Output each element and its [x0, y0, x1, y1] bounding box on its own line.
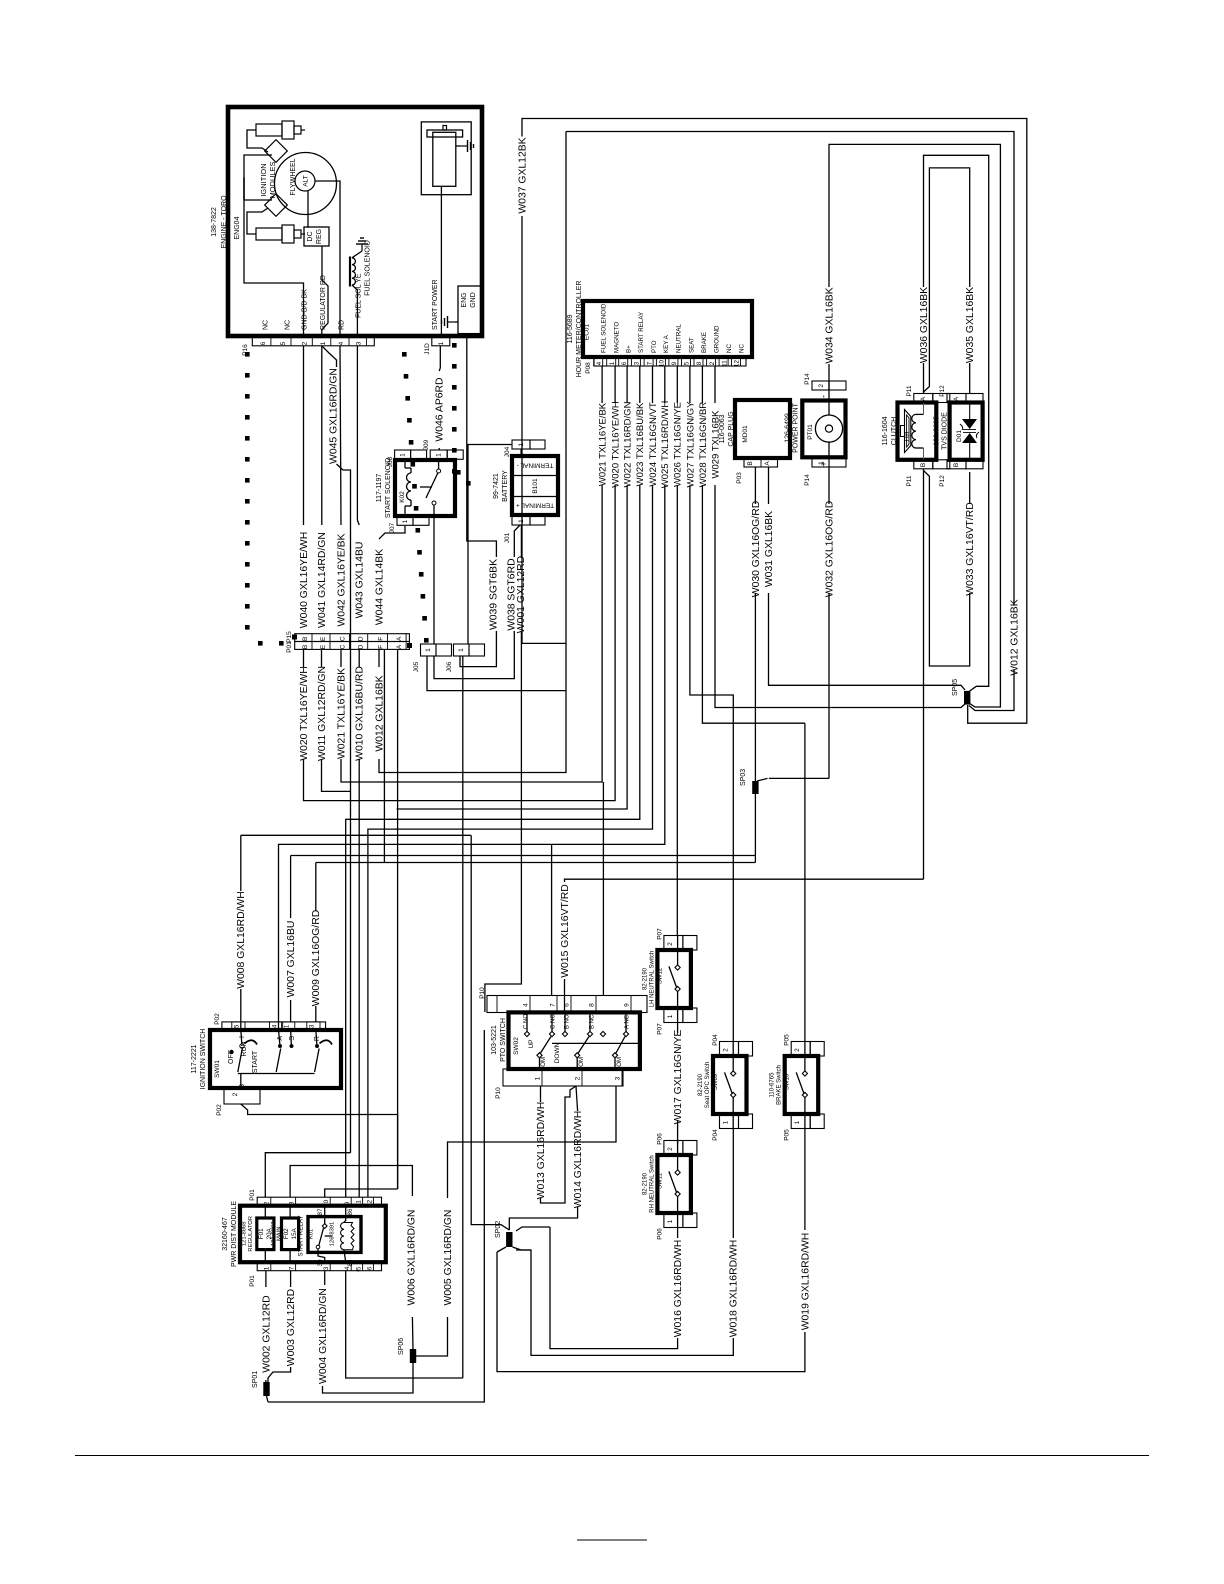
ground symbol (starter) — [456, 145, 461, 147]
svg-text:B+: B+ — [626, 345, 633, 353]
svg-text:NC: NC — [738, 344, 745, 353]
svg-text:W005 GXL16RD/GN: W005 GXL16RD/GN — [443, 1210, 454, 1306]
svg-text:10: 10 — [659, 360, 666, 367]
svg-text:P10: P10 — [495, 1087, 502, 1099]
svg-text:1: 1 — [609, 361, 616, 365]
svg-text:SP01: SP01 — [252, 1371, 259, 1388]
svg-text:P05: P05 — [784, 1034, 791, 1046]
wire W045 below label to module pin 2 — [337, 464, 351, 856]
wire module loop down to GND pin 2 — [244, 178, 304, 337]
svg-text:COM: COM — [578, 1057, 585, 1071]
svg-text:W041 GXL14RD/GN: W041 GXL14RD/GN — [317, 532, 328, 628]
svg-text:P04: P04 — [712, 1129, 719, 1141]
wire W020 P15-B down — [303, 649, 305, 667]
svg-text:A NC: A NC — [624, 1014, 630, 1029]
svg-text:EC01: EC01 — [584, 323, 591, 340]
svg-text:82-2190: 82-2190 — [642, 1172, 648, 1195]
svg-text:2: 2 — [667, 1147, 674, 1151]
svg-text:B: B — [239, 1084, 246, 1089]
wire W030 down to SP03 — [754, 593, 756, 781]
svg-text:Seat OPC Switch: Seat OPC Switch — [705, 1062, 711, 1108]
svg-text:2: 2 — [709, 361, 716, 365]
svg-text:W036 GXL16BK: W036 GXL16BK — [919, 287, 930, 363]
footer page-number line — [577, 1539, 647, 1541]
switch SW11 RH neutral box — [657, 1155, 691, 1213]
svg-text:116-0063: 116-0063 — [719, 414, 726, 443]
svg-text:12: 12 — [366, 1199, 373, 1206]
svg-text:3: 3 — [634, 361, 641, 365]
svg-text:6: 6 — [366, 1266, 373, 1270]
svg-text:P04: P04 — [712, 1034, 719, 1046]
svg-text:REGULATOR: REGULATOR — [248, 1216, 254, 1252]
svg-text:FUEL SOLENOID: FUEL SOLENOID — [365, 240, 372, 296]
switch SW11 RH neutral contacts — [675, 1170, 680, 1175]
svg-text:W021 TXL16YE/BK: W021 TXL16YE/BK — [336, 668, 347, 759]
svg-text:SP05: SP05 — [952, 679, 959, 696]
svg-text:F: F — [377, 637, 384, 641]
ignition pin B bottom — [224, 1088, 260, 1104]
svg-text:5: 5 — [356, 1266, 363, 1270]
svg-text:W026 TXL16GN/YE: W026 TXL16GN/YE — [673, 402, 684, 487]
svg-text:8: 8 — [289, 1201, 296, 1205]
svg-text:P10: P10 — [479, 987, 486, 999]
switch SW09 seat OPC lever — [725, 1072, 733, 1094]
harness boundary dashed line (start area) — [452, 343, 471, 486]
power point pin 2 top — [812, 381, 829, 390]
svg-text:1: 1 — [264, 1266, 271, 1270]
ignition levers — [238, 1049, 243, 1073]
wire W028 controller pin down — [701, 366, 703, 403]
alternator circle ALT — [295, 171, 315, 191]
svg-text:1: 1 — [400, 453, 407, 457]
wire seat switch pin 1 down to W018 label — [732, 1129, 734, 1239]
wire W012 to ground loop riser — [379, 132, 566, 773]
wire W033 TVS B to clutch B tie — [969, 472, 971, 504]
wire W015 feed line clutch to PTO switch — [565, 879, 924, 882]
svg-text:HOUR METER/CONTROLLER: HOUR METER/CONTROLLER — [576, 281, 583, 378]
svg-text:1: 1 — [534, 1076, 541, 1080]
svg-text:C NC: C NC — [550, 1014, 556, 1029]
splice SP06 — [410, 1349, 416, 1363]
ignition module 1 (rotated square) — [265, 140, 288, 163]
wire controller GROUND W029 to SP05 — [715, 485, 965, 708]
wire ignition I to SP02 feeder line — [240, 989, 242, 1030]
svg-text:W033 GXL16VT/RD: W033 GXL16VT/RD — [965, 502, 976, 596]
wire W036 clutch A to SP05 loop — [923, 363, 925, 394]
svg-text:START POWER: START POWER — [432, 279, 439, 330]
wire W011 to regulator column — [322, 759, 351, 791]
svg-text:82-2190: 82-2190 — [642, 967, 648, 990]
switch SW10 brake pin 2 — [791, 1042, 810, 1057]
wire PTO riser to fuel solenoid line — [602, 782, 604, 996]
switch SW10 brake contacts — [802, 1071, 807, 1076]
svg-text:138-7822: 138-7822 — [211, 207, 218, 237]
svg-text:5: 5 — [684, 361, 691, 365]
svg-text:W024 TXL16GN/VT: W024 TXL16GN/VT — [648, 402, 659, 487]
svg-text:P11: P11 — [906, 475, 913, 486]
svg-text:PTO: PTO — [651, 340, 658, 353]
wire spark plug 1 to ignition module 1 — [247, 130, 268, 152]
switch SW12 LH neutral contacts — [675, 965, 680, 970]
wire DC REG to engine pin 1 REGULATOR — [322, 246, 328, 337]
svg-text:P03: P03 — [736, 472, 743, 484]
cap plug MD01 116-0063 box — [735, 400, 790, 458]
start solenoid pin J09 — [430, 450, 447, 459]
wire W001 through connector to SP01 run — [268, 1030, 484, 1402]
wire W040 engine pin 2 to P15-B — [303, 346, 305, 525]
battery B101 99-7421 box — [512, 456, 558, 515]
wire W023 controller pin down — [639, 366, 641, 403]
svg-text:BRAKE Switch: BRAKE Switch — [777, 1065, 783, 1105]
wire W022 controller pin down — [626, 366, 628, 403]
wire W021 to controller FUEL SOLENOID column — [341, 485, 602, 782]
engine assembly box ENG04 138-7822 ENGINE - TORO — [228, 107, 482, 336]
svg-text:121-8868: 121-8868 — [242, 1222, 248, 1247]
svg-text:W009 GXL16OG/RD: W009 GXL16OG/RD — [311, 910, 322, 1006]
spark plug 2 (bottom) — [256, 225, 305, 243]
svg-text:W039 SGT6BK: W039 SGT6BK — [489, 559, 500, 630]
wire W014 PTO pin 2 down — [576, 1086, 578, 1111]
svg-text:W030 GXL16OG/RD: W030 GXL16OG/RD — [751, 501, 762, 597]
wire ignition R riser (W009) — [315, 1006, 317, 1022]
svg-text:110-6765: 110-6765 — [770, 1072, 776, 1098]
connector J06 pin 1 — [454, 644, 470, 656]
svg-text:NC: NC — [263, 320, 270, 330]
PTO levers — [541, 1037, 552, 1054]
svg-text:C: C — [339, 636, 346, 641]
svg-text:6: 6 — [621, 361, 628, 365]
fuel solenoid coil — [352, 258, 355, 285]
wire W039 engine ground to J06 — [467, 336, 497, 557]
wire through F02 — [289, 1206, 291, 1218]
svg-text:MAGNETO: MAGNETO — [614, 322, 621, 353]
wire W011 P15-E down — [321, 649, 323, 667]
svg-text:116-1604: 116-1604 — [882, 416, 889, 445]
wire W020 controller pin down — [614, 366, 616, 403]
svg-text:W034 GXL16BK: W034 GXL16BK — [824, 287, 835, 363]
svg-text:OFF: OFF — [228, 1050, 235, 1064]
PTO internal bus — [552, 1042, 640, 1044]
DC REG box — [304, 227, 329, 246]
engine connector P16 row — [252, 337, 374, 346]
wire W030 cap plug B down — [754, 467, 756, 504]
svg-text:P01: P01 — [249, 1189, 256, 1201]
svg-text:COM: COM — [616, 1057, 623, 1071]
TVS diode D01 108-3695 box — [950, 403, 983, 460]
switch SW12 LH neutral lever — [669, 966, 677, 988]
switch SW10 brake lever — [796, 1072, 804, 1094]
wire P15-A key feed down to module pin 10 — [397, 649, 399, 1114]
svg-text:F01: F01 — [258, 1228, 265, 1239]
svg-text:P02: P02 — [214, 1013, 221, 1025]
svg-text:CAP PLUG: CAP PLUG — [728, 411, 735, 446]
wire SP02 top-right link — [516, 1227, 550, 1231]
wire W035 TVS A to clutch A tie — [969, 363, 971, 394]
svg-text:2: 2 — [574, 1076, 581, 1080]
svg-text:PTO SWITCH: PTO SWITCH — [500, 1018, 507, 1062]
svg-text:P07: P07 — [656, 1023, 663, 1035]
clutch coil — [912, 414, 916, 448]
svg-text:SP06: SP06 — [398, 1338, 405, 1355]
svg-text:SP03: SP03 — [740, 769, 747, 786]
wire SP02 top-left feeder — [471, 1022, 509, 1230]
svg-text:W021 TXL16YE/BK: W021 TXL16YE/BK — [598, 402, 609, 486]
svg-text:7: 7 — [646, 361, 653, 365]
svg-text:126-6499: 126-6499 — [785, 413, 792, 443]
svg-text:1: 1 — [425, 648, 432, 652]
svg-text:P14: P14 — [804, 373, 811, 385]
svg-text:7: 7 — [289, 1266, 296, 1270]
wire W027 controller pin down — [689, 366, 691, 403]
svg-text:TVS DIODE: TVS DIODE — [942, 412, 949, 450]
svg-text:B: B — [953, 463, 960, 467]
battery pin J01 — [512, 516, 530, 525]
wire W027 SEAT to seat switch — [690, 485, 733, 1042]
svg-text:SW01: SW01 — [214, 1060, 221, 1078]
svg-text:SW12: SW12 — [657, 967, 663, 984]
svg-text:P14: P14 — [804, 474, 811, 486]
svg-text:2: 2 — [232, 1092, 239, 1096]
wire W004 module pin 3 to SP06 — [324, 1271, 326, 1285]
clutch plate symbol — [905, 410, 911, 453]
wire solenoid contact to J05 — [433, 516, 435, 644]
wire through F01 — [264, 1206, 266, 1218]
svg-text:9: 9 — [671, 361, 678, 365]
svg-text:SW10: SW10 — [785, 1073, 791, 1090]
svg-text:COM: COM — [540, 1057, 547, 1071]
wire W037 top run to outer ground loop — [522, 119, 1027, 724]
svg-text:GND-B/D BK: GND-B/D BK — [302, 289, 309, 330]
wire ignition modules to engine pins (left loop) — [244, 155, 272, 200]
hour meter/controller EC01 116-5689 box — [583, 301, 752, 357]
wire W010 P15-D down — [358, 649, 360, 667]
svg-text:W035 GXL16BK: W035 GXL16BK — [965, 287, 976, 363]
svg-text:BRAKE: BRAKE — [701, 332, 708, 353]
ignition switch SW01 117-2221 box — [210, 1030, 341, 1088]
svg-text:CLUTCH: CLUTCH — [891, 417, 898, 445]
svg-text:W022 TXL16RD/GN: W022 TXL16RD/GN — [623, 401, 634, 487]
switch SW09 seat OPC contacts — [731, 1071, 736, 1076]
svg-text:85: 85 — [347, 1259, 354, 1266]
svg-text:A: A — [396, 636, 403, 641]
svg-text:W040 GXL16YE/WH: W040 GXL16YE/WH — [299, 532, 310, 628]
svg-text:1: 1 — [667, 1219, 674, 1223]
svg-text:W025 TXL16RD/WH: W025 TXL16RD/WH — [660, 401, 671, 489]
junction dot P15 — [292, 635, 297, 640]
ENG GND box — [458, 286, 481, 334]
ignition switch P02 top row — [222, 1022, 326, 1030]
svg-text:117-1197: 117-1197 — [376, 474, 383, 503]
clutch pin B — [914, 460, 933, 469]
svg-text:6: 6 — [260, 341, 267, 345]
svg-text:MAIN: MAIN — [276, 1227, 282, 1242]
splice SP02 — [506, 1232, 512, 1247]
wire W002 module pin 1 to SP01 — [265, 1271, 267, 1287]
wire PTO pin 7 riser to KEY A line — [551, 844, 553, 995]
svg-text:SW09: SW09 — [713, 1073, 719, 1090]
svg-text:W031 GXL16BK: W031 GXL16BK — [764, 511, 775, 587]
svg-text:IGNITION: IGNITION — [259, 163, 268, 196]
wire W043 engine pin 3 to P15-D — [357, 346, 359, 525]
wire W024 PTO run to module pin 12 — [368, 485, 653, 1197]
svg-text:IGNITION SWITCH: IGNITION SWITCH — [200, 1029, 207, 1090]
wire W026 NEUTRAL to SW12 pin 2 — [676, 485, 678, 936]
svg-text:MD01: MD01 — [742, 425, 749, 443]
wire W010 down to module pin 11 — [358, 759, 360, 1197]
wire W026 controller pin down — [676, 366, 678, 403]
svg-text:W004 GXL16RD/GN: W004 GXL16RD/GN — [318, 1288, 329, 1384]
wire clutch B down to W015 feed — [923, 469, 925, 879]
fuse F02 MAIN 15A — [282, 1218, 299, 1250]
svg-text:F: F — [377, 645, 384, 649]
wire W028 BRAKE to brake switch — [702, 485, 805, 723]
svg-text:W044 GXL14BK: W044 GXL14BK — [374, 549, 385, 625]
svg-text:3: 3 — [323, 1266, 330, 1270]
svg-text:87: 87 — [317, 1208, 324, 1215]
svg-text:4: 4 — [596, 361, 603, 365]
svg-text:DC: DC — [307, 231, 314, 241]
svg-text:4: 4 — [338, 341, 345, 345]
wire W020 to controller MAGNETO column — [304, 485, 616, 801]
switch SW11 RH neutral lever — [669, 1171, 677, 1193]
power point PT01 126-6499 box — [802, 401, 845, 458]
starter motor tip — [443, 126, 447, 131]
svg-text:2: 2 — [794, 1048, 801, 1052]
svg-text:K02: K02 — [399, 491, 406, 503]
svg-text:9: 9 — [623, 1003, 630, 1007]
wire module pin 8 to W006 feed — [290, 1166, 412, 1198]
svg-text:P07: P07 — [656, 928, 663, 940]
starter motor cap — [427, 130, 463, 137]
harness boundary dashed line (left) — [245, 352, 284, 646]
svg-text:2: 2 — [723, 1048, 730, 1052]
connector P01-P15 double row — [295, 634, 410, 642]
wire SW12 pin 1 down (W017 upper) — [677, 1023, 679, 1034]
svg-text:11: 11 — [721, 360, 728, 367]
svg-text:NEUTRAL: NEUTRAL — [676, 324, 683, 353]
svg-text:START RELAY: START RELAY — [638, 312, 645, 353]
wire W022 controller B+ to key column — [397, 485, 627, 809]
svg-text:P05: P05 — [784, 1129, 791, 1141]
svg-text:NC: NC — [726, 344, 733, 353]
svg-text:ENG: ENG — [461, 292, 468, 307]
svg-text:W003 GXL12RD: W003 GXL12RD — [286, 1289, 297, 1366]
power distribution module 32160-467 box — [240, 1206, 386, 1263]
svg-text:P06: P06 — [656, 1133, 663, 1145]
svg-text:J06: J06 — [446, 661, 453, 672]
svg-text:PT01: PT01 — [807, 424, 814, 440]
svg-text:GROUND: GROUND — [713, 325, 720, 353]
svg-text:B: B — [747, 461, 754, 465]
wire SP02 bottom-left diagonal — [497, 1247, 506, 1252]
svg-text:S: S — [289, 1036, 296, 1041]
start solenoid pin J08 — [395, 450, 411, 459]
wire W037 label to engine area ground net — [522, 216, 566, 643]
wire W003 module pin 7 to SP01 — [290, 1271, 292, 1287]
switch SW12 LH neutral box — [657, 950, 691, 1008]
svg-text:6: 6 — [563, 1003, 570, 1007]
svg-text:W043 GXL14BU: W043 GXL14BU — [355, 542, 366, 619]
svg-text:KEY A: KEY A — [663, 334, 670, 353]
wire W025 controller pin down — [664, 366, 666, 403]
svg-text:P08: P08 — [585, 362, 592, 374]
wire W045 engine REGULATOR pin 1 to PWR DIST module pin 2 (upper) — [322, 346, 337, 367]
splice SP05 — [964, 691, 970, 705]
battery terminal dividers — [512, 475, 558, 477]
wire ignition S riser (W007) — [290, 1000, 292, 1022]
wire W046 J1D to start solenoid J09 — [439, 346, 441, 368]
switch SW09 seat OPC box — [713, 1056, 747, 1114]
svg-text:P02: P02 — [216, 1104, 223, 1116]
engine connector J1D pin 1 — [432, 337, 450, 346]
svg-text:LH NEUTRAL Switch: LH NEUTRAL Switch — [649, 951, 655, 1007]
wire W012 P15-F down — [378, 649, 380, 667]
TVS pin B — [947, 460, 966, 469]
svg-text:P06: P06 — [656, 1228, 663, 1240]
svg-text:P15: P15 — [286, 631, 293, 643]
cap plug pin row — [744, 458, 778, 467]
wire module pin 4 to J06 (U-link) — [346, 1271, 463, 1378]
wire ignition key feed to W006 riser — [397, 1115, 399, 1190]
wire starter to J1D START POWER pin — [440, 186, 442, 337]
svg-text:J08: J08 — [387, 456, 394, 467]
svg-text:W016 GXL16RD/WH: W016 GXL16RD/WH — [673, 1240, 684, 1338]
start solenoid K02 117-1197 box — [395, 460, 455, 516]
connector J05 pin 1 — [421, 644, 437, 656]
svg-text:D01: D01 — [956, 430, 963, 442]
svg-text:UP: UP — [528, 1039, 535, 1048]
svg-text:W008 GXL16RD/WH: W008 GXL16RD/WH — [236, 891, 247, 989]
svg-text:SP02: SP02 — [495, 1221, 502, 1238]
svg-text:1: 1 — [794, 1120, 801, 1124]
svg-text:ALT: ALT — [303, 175, 310, 186]
switch SW12 LH neutral pin 1 — [664, 1008, 683, 1023]
wire W017 lower to SW11 pin 2 — [677, 1120, 679, 1144]
wire fuel solenoid to ground — [352, 251, 362, 258]
svg-text:ENG04: ENG04 — [234, 216, 241, 239]
svg-text:2: 2 — [818, 384, 825, 388]
wire W031 cap plug A down — [768, 467, 770, 504]
svg-text:W027 TXL16GN/GY: W027 TXL16GN/GY — [685, 401, 696, 488]
svg-text:1: 1 — [667, 1014, 674, 1018]
power point pin 1 bottom — [812, 458, 829, 467]
svg-text:A: A — [396, 644, 403, 649]
ignition rotary arc OFF-RUN-START — [245, 1040, 258, 1044]
svg-text:J01: J01 — [504, 532, 511, 543]
svg-text:W017 GXL16GN/YE: W017 GXL16GN/YE — [673, 1030, 684, 1125]
svg-text:1: 1 — [320, 341, 327, 345]
TVS pin A — [947, 394, 966, 403]
wire seat/ground interlock line — [316, 862, 756, 864]
svg-text:FUEL SOLENOID: FUEL SOLENOID — [601, 303, 608, 353]
wire J06 to module pin 4 (down) — [462, 656, 464, 1378]
ignition module 2 (rotated square) — [265, 194, 288, 217]
wire ALT right side to pin 4 RD — [315, 181, 340, 337]
svg-text:W046 AP6RD: W046 AP6RD — [435, 377, 446, 441]
svg-text:J1D: J1D — [424, 343, 431, 355]
svg-text:GND: GND — [470, 292, 477, 308]
wire SP03 diagonal to W032 line — [757, 778, 768, 781]
wire W042 engine pin 4 to P15-C — [340, 346, 341, 525]
svg-text:2: 2 — [302, 341, 309, 345]
svg-text:REG: REG — [316, 229, 323, 244]
svg-text:I: I — [239, 1036, 246, 1038]
svg-text:B: B — [920, 463, 927, 467]
svg-text:W023 TXL16BU/BK: W023 TXL16BU/BK — [635, 402, 646, 486]
wire SP02 bottom-right diagonal — [513, 1247, 532, 1250]
svg-text:D: D — [358, 644, 365, 649]
svg-text:32160-467: 32160-467 — [222, 1217, 229, 1251]
